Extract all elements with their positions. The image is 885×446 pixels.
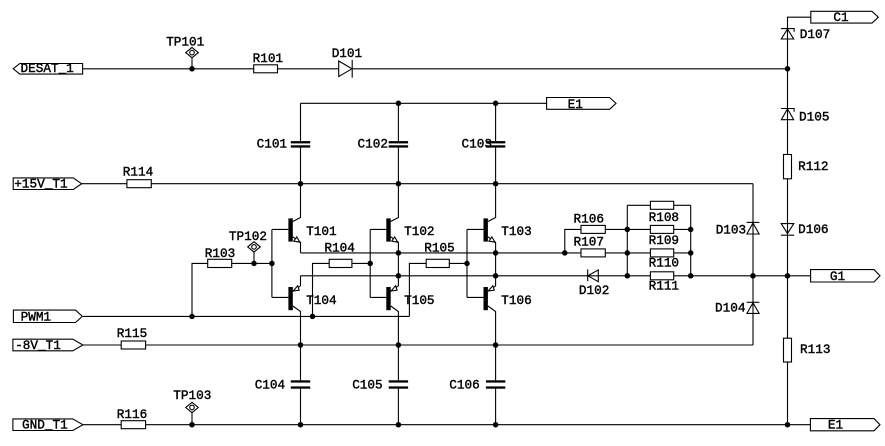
svg-text:R103: R103 bbox=[205, 246, 235, 261]
svg-text:D107: D107 bbox=[800, 27, 830, 42]
svg-text:D101: D101 bbox=[332, 46, 362, 61]
wire R107 right lead bbox=[605, 252, 627, 254]
port E1 bottom bbox=[810, 418, 880, 433]
svg-text:R101: R101 bbox=[253, 51, 283, 66]
svg-text:D102: D102 bbox=[579, 283, 609, 298]
node TP102 junction bbox=[251, 261, 257, 267]
wire R105 left lead bbox=[409, 263, 426, 316]
diode D103 bbox=[716, 222, 760, 275]
wire -8V to R115 bbox=[83, 344, 121, 346]
capacitor C106 bbox=[449, 378, 505, 393]
svg-text:E1: E1 bbox=[568, 97, 583, 112]
wire R105 right lead bbox=[449, 262, 467, 264]
node PNP rail T105 bbox=[396, 273, 402, 279]
node G1 right column bbox=[785, 273, 791, 279]
resistor R114 bbox=[123, 165, 153, 188]
wire R103 left lead bbox=[192, 263, 208, 316]
test point TP103 bbox=[173, 388, 211, 425]
svg-text:C105: C105 bbox=[352, 378, 382, 393]
diode D102 bbox=[579, 269, 609, 297]
port E1 top bbox=[547, 97, 616, 112]
resistor R103 bbox=[205, 246, 235, 267]
node emitter rail T103 bbox=[493, 250, 499, 256]
diode D107 bbox=[781, 27, 830, 69]
node GND C104 bbox=[298, 422, 304, 428]
svg-text:C106: C106 bbox=[449, 378, 479, 393]
wire C103 top lead bbox=[495, 103, 497, 141]
wire DESAT_1 to R101 bbox=[83, 68, 254, 70]
wire column to D105 bbox=[787, 69, 789, 109]
svg-text:TP101: TP101 bbox=[166, 34, 204, 49]
wire C106 bottom lead bbox=[495, 389, 497, 425]
wire G1 rail bbox=[691, 275, 811, 277]
wire D106 to G1 rail bbox=[787, 235, 789, 276]
svg-text:D105: D105 bbox=[799, 110, 829, 125]
svg-text:T106: T106 bbox=[501, 293, 531, 308]
node bottom rail right bbox=[785, 422, 791, 428]
svg-text:GND_T1: GND_T1 bbox=[22, 418, 68, 433]
wire R106 branch vertical bbox=[565, 229, 581, 253]
node +15V C102/T102 bbox=[396, 181, 402, 187]
wire node N vertical bbox=[690, 205, 692, 275]
node R105 to bases bbox=[464, 261, 470, 267]
wire C101 top lead bbox=[300, 103, 302, 141]
node G1 D103/D104 column bbox=[750, 273, 756, 279]
svg-text:T104: T104 bbox=[306, 293, 336, 308]
node PNP rail T106 bbox=[493, 273, 499, 279]
transistor T103 bbox=[484, 184, 532, 253]
svg-text:C103: C103 bbox=[462, 137, 492, 152]
diode D105 bbox=[781, 109, 830, 155]
test point TP101 bbox=[166, 34, 204, 68]
wire R113 to bottom rail bbox=[787, 362, 789, 425]
port G1 bbox=[811, 269, 880, 284]
svg-text:C102: C102 bbox=[358, 137, 388, 152]
wire T101 base stub bbox=[272, 228, 289, 230]
node emitter rail T102 bbox=[396, 250, 402, 256]
svg-text:PWM1: PWM1 bbox=[21, 309, 51, 324]
svg-text:TP102: TP102 bbox=[229, 229, 267, 244]
diode D101 bbox=[332, 46, 362, 78]
diode D104 bbox=[715, 276, 759, 345]
svg-text:R114: R114 bbox=[123, 165, 153, 180]
capacitor C104 bbox=[255, 378, 310, 393]
wire PNP emitter rail bbox=[301, 275, 628, 277]
node -8V T106 bbox=[493, 342, 499, 348]
wire C104 top lead bbox=[300, 345, 302, 380]
wire C105 top lead bbox=[397, 345, 399, 380]
wire C102 top lead bbox=[397, 103, 399, 141]
resistor R111 bbox=[627, 272, 690, 294]
svg-text:C101: C101 bbox=[257, 137, 287, 152]
wire GND rail bbox=[146, 424, 811, 426]
svg-text:D104: D104 bbox=[715, 301, 745, 316]
resistor R107 bbox=[574, 235, 606, 257]
resistor R113 bbox=[784, 338, 831, 362]
wire C106 top lead bbox=[495, 345, 497, 380]
capacitor C101 bbox=[257, 137, 311, 152]
transistor T101 bbox=[288, 184, 336, 253]
node R103 to bases bbox=[269, 261, 275, 267]
node PWM R103 bbox=[189, 314, 195, 320]
resistor R109 bbox=[627, 225, 690, 248]
svg-text:R110: R110 bbox=[649, 255, 679, 270]
port -8V_T1 bbox=[13, 338, 83, 353]
resistor R115 bbox=[117, 326, 147, 349]
wire T106 base stub bbox=[467, 296, 484, 298]
resistor R101 bbox=[253, 51, 283, 73]
wire C101 bottom lead bbox=[300, 148, 302, 184]
svg-text:R116: R116 bbox=[117, 407, 147, 422]
wire C103 bottom lead bbox=[495, 148, 497, 184]
node DESAT right column bbox=[785, 66, 791, 72]
capacitor C102 bbox=[358, 137, 409, 152]
wire R103 right lead bbox=[232, 262, 272, 264]
svg-text:G1: G1 bbox=[830, 269, 845, 284]
node TP101/DESAT junction bbox=[189, 66, 195, 72]
node GND C106 bbox=[493, 422, 499, 428]
svg-text:DESAT_1: DESAT_1 bbox=[21, 61, 74, 76]
svg-text:C1: C1 bbox=[833, 10, 848, 25]
wire R106 right lead bbox=[605, 228, 627, 230]
node M R111 bbox=[625, 273, 631, 279]
wire G1 rail to R113 bbox=[787, 276, 789, 338]
svg-text:R107: R107 bbox=[574, 235, 604, 250]
node -8V T105 bbox=[396, 342, 402, 348]
wire base vertical pair2 bbox=[369, 229, 371, 297]
wire R112 to D106 bbox=[787, 179, 789, 235]
node M R106 bbox=[625, 227, 631, 233]
svg-text:R111: R111 bbox=[649, 278, 679, 293]
port C1 bbox=[811, 10, 879, 25]
transistor T105 bbox=[386, 276, 434, 345]
svg-text:T105: T105 bbox=[404, 293, 434, 308]
node top rail C102 bbox=[396, 101, 402, 107]
svg-text:-8V_T1: -8V_T1 bbox=[15, 338, 61, 353]
wire T104 base stub bbox=[272, 296, 289, 298]
svg-text:E1: E1 bbox=[828, 418, 843, 433]
node N R111 bbox=[688, 273, 694, 279]
node N R110 bbox=[688, 250, 694, 256]
wire C102 bottom lead bbox=[397, 148, 399, 184]
resistor R106 bbox=[574, 212, 606, 234]
node +15V C101/T101 bbox=[298, 181, 304, 187]
wire PWM1 rail bbox=[83, 315, 410, 317]
node R104 to bases bbox=[367, 261, 373, 267]
transistor T104 bbox=[288, 276, 336, 345]
wire T103 base stub bbox=[467, 228, 484, 230]
wire E1 top rail bbox=[301, 102, 547, 104]
node M R107 bbox=[625, 250, 631, 256]
node top rail C103 bbox=[493, 101, 499, 107]
transistor T106 bbox=[484, 276, 532, 345]
node -8V T104 bbox=[298, 342, 304, 348]
wire node M vertical bbox=[626, 205, 628, 275]
wire +15V rail bbox=[151, 183, 753, 185]
svg-text:T103: T103 bbox=[501, 224, 531, 239]
resistor R110 bbox=[627, 249, 690, 270]
node N R109 bbox=[688, 227, 694, 233]
wire R101 to D101 bbox=[278, 68, 339, 70]
port DESAT_1 bbox=[13, 61, 82, 76]
svg-text:R112: R112 bbox=[798, 159, 828, 174]
resistor R116 bbox=[117, 407, 147, 429]
svg-text:D106: D106 bbox=[798, 222, 828, 237]
port PWM1 bbox=[13, 309, 82, 324]
transistor T102 bbox=[386, 184, 434, 253]
node R106 branch bbox=[562, 250, 568, 256]
wire T105 base stub bbox=[370, 296, 386, 298]
wire C104 bottom lead bbox=[300, 389, 302, 425]
svg-text:T102: T102 bbox=[404, 224, 434, 239]
svg-text:R106: R106 bbox=[574, 212, 604, 227]
svg-text:T101: T101 bbox=[306, 224, 336, 239]
wire +15V to R114 bbox=[82, 183, 127, 185]
diode D106 bbox=[781, 222, 829, 237]
wire C105 bottom lead bbox=[397, 389, 399, 425]
svg-text:TP103: TP103 bbox=[173, 388, 211, 403]
svg-text:R113: R113 bbox=[800, 342, 830, 357]
wire D101 to right column bbox=[352, 68, 787, 70]
wire emitter pair link 2 bbox=[397, 253, 399, 276]
port +15V_T1 bbox=[13, 176, 81, 191]
wire T102 base stub bbox=[370, 228, 386, 230]
wire base vertical pair1 bbox=[271, 229, 273, 297]
wire R104 left lead bbox=[313, 263, 330, 316]
wire -8V rail bbox=[146, 344, 753, 346]
port GND_T1 bbox=[13, 418, 83, 433]
wire base vertical pair3 bbox=[466, 229, 468, 297]
wire GND to R116 bbox=[83, 424, 121, 426]
capacitor C105 bbox=[352, 378, 408, 393]
node GND TP103 bbox=[189, 422, 195, 428]
svg-text:R115: R115 bbox=[117, 326, 147, 341]
wire NPN emitter rail bbox=[301, 252, 582, 254]
wire emitter pair link 3 bbox=[495, 253, 497, 276]
node +15V C103/T103 bbox=[493, 181, 499, 187]
svg-text:R109: R109 bbox=[649, 233, 679, 248]
svg-text:C104: C104 bbox=[255, 378, 285, 393]
resistor R104 bbox=[324, 241, 354, 268]
capacitor C103 bbox=[462, 137, 506, 152]
wire R104 right lead bbox=[352, 262, 370, 264]
svg-text:R108: R108 bbox=[649, 210, 679, 225]
svg-text:+15V_T1: +15V_T1 bbox=[14, 176, 67, 191]
wire +15V corner down to D103 bbox=[752, 184, 754, 223]
svg-text:D103: D103 bbox=[716, 222, 746, 237]
resistor R105 bbox=[424, 241, 454, 268]
test point TP102 bbox=[229, 229, 267, 264]
resistor R112 bbox=[784, 155, 829, 179]
wire C1 to column bbox=[788, 17, 811, 28]
node PWM R104 bbox=[310, 314, 316, 320]
node GND C105 bbox=[396, 422, 402, 428]
resistor R108 bbox=[627, 201, 690, 225]
